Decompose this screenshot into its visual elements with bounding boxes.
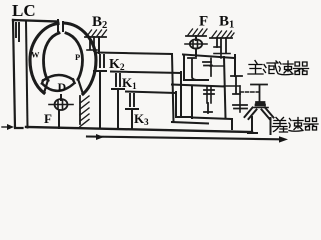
- gearbox box2 bottom: [192, 118, 232, 130]
- svg-text:D: D: [58, 80, 67, 94]
- stator bowl top arc: [43, 75, 73, 81]
- differential bevel gear right: [262, 108, 274, 120]
- wire top rail to converter: [13, 20, 58, 22]
- freewheel F2 ellipse: [190, 39, 202, 48]
- wire turbine shaft vertical: [26, 21, 28, 128]
- gearbox box1 top: [183, 55, 235, 59]
- brake B1 plates: [217, 38, 226, 53]
- main reducer mesh bars: [233, 105, 247, 109]
- planetary2 gear bars: [204, 90, 214, 94]
- char cha: [273, 118, 288, 133]
- label main reducer (hand-drawn CJK strokes): [248, 61, 309, 75]
- freewheel F1 ellipse: [55, 99, 68, 110]
- char qi: [294, 62, 309, 75]
- svg-text:P: P: [75, 52, 80, 62]
- differential pinion lower bar: [253, 107, 268, 109]
- main reducer cross link: [240, 91, 259, 93]
- svg-text:F: F: [44, 111, 52, 126]
- freewheel F2 ground hatch: [186, 35, 206, 37]
- planetary1 carrier J: [188, 58, 199, 80]
- gearbox box2 left wall: [191, 87, 193, 118]
- planetary1 planet bars: [203, 62, 212, 66]
- differential cage right: [270, 118, 272, 134]
- torque converter outer ring left: [30, 24, 58, 94]
- clutch LC plates: [16, 23, 19, 41]
- node input arrow: [2, 126, 8, 128]
- differential cage left: [248, 117, 257, 133]
- brake B2 ground hatch: [85, 36, 106, 38]
- wire drum1 right vertical: [172, 54, 174, 122]
- clutch K2 lower plate T: [94, 71, 106, 129]
- gearbox box1 left wall: [184, 55, 208, 80]
- wire drum3 right vertical with foot: [176, 92, 192, 117]
- label differential (hand-drawn CJK strokes): [273, 118, 319, 133]
- stator bowl bottom arc: [42, 80, 75, 91]
- gearbox mid rail: [172, 85, 224, 87]
- svg-text:B2: B2: [92, 14, 107, 31]
- char zhu: [248, 61, 263, 75]
- svg-text:B1: B1: [219, 14, 234, 31]
- main reducer mesh stem: [239, 86, 241, 112]
- wire rail drum2: [111, 72, 181, 74]
- clutch K2 upper plates: [100, 55, 104, 67]
- freewheel F1 inner plates: [58, 101, 63, 109]
- wire B2 stem: [98, 37, 100, 53]
- wire rail drum1: [97, 53, 172, 55]
- clutch K1 lower plate T: [112, 89, 124, 129]
- differential bevel gear left: [245, 108, 257, 120]
- svg-text:LC: LC: [12, 1, 36, 20]
- differential pinion: [256, 103, 265, 106]
- turbine segment end cap: [44, 80, 48, 93]
- clutch K3 lower plate T: [126, 109, 138, 130]
- gearbox box right wall: [224, 57, 226, 118]
- brake B1 ground hatch: [210, 37, 232, 39]
- planetary2 lower T: [204, 103, 212, 113]
- planetary1 sun bars: [210, 59, 212, 77]
- clutch K1 upper plates: [116, 74, 120, 86]
- wire gearbox bottom bar: [172, 122, 208, 124]
- char su: [279, 61, 293, 75]
- svg-text:F: F: [199, 14, 208, 30]
- clutch K3 upper plates: [130, 94, 134, 106]
- freewheel F2 axis line: [185, 43, 207, 45]
- svg-text:K3: K3: [134, 111, 149, 127]
- brake B2 plates: [90, 37, 94, 51]
- pump segment end cap: [78, 79, 83, 94]
- freewheel F2 inner plates: [193, 40, 198, 48]
- wire rail drum3: [126, 92, 175, 94]
- housing wall hatched: [79, 96, 81, 124]
- svg-text:K1: K1: [122, 75, 137, 91]
- wire input-shaft left wall: [13, 20, 23, 128]
- char qi2: [304, 118, 318, 130]
- main reducer gear2 bar: [251, 85, 267, 103]
- wire bottom rail2 output: [87, 137, 280, 140]
- torque converter inner ring right: [66, 33, 83, 80]
- wire converter input slot: [58, 20, 63, 31]
- main reducer input column: [234, 55, 236, 76]
- char jian: [264, 61, 279, 74]
- node output arrowhead: [279, 136, 288, 142]
- wire bottom rail1: [26, 127, 252, 132]
- wire drum2 right vertical: [180, 72, 182, 116]
- wire stator stem: [60, 95, 62, 100]
- node flow arrow on rail2: [96, 134, 104, 140]
- main reducer gear1 T-bar: [231, 76, 242, 94]
- freewheel F1 axis line: [49, 104, 73, 106]
- torque converter inner ring left: [44, 33, 60, 81]
- wire freewheel1 stem down: [58, 110, 60, 128]
- wire freewheel F2 stem bottom: [195, 49, 197, 57]
- char su2: [289, 118, 303, 132]
- freewheel F2 stem top: [195, 36, 197, 40]
- svg-text:W: W: [31, 50, 40, 60]
- torque converter outer ring right: [64, 23, 96, 94]
